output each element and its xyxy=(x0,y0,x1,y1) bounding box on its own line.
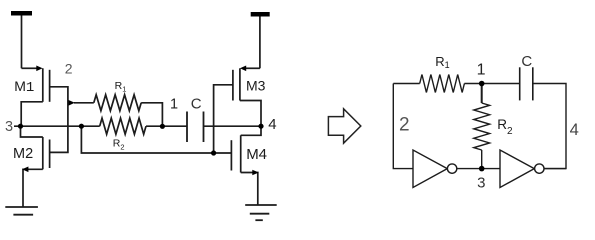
svg-text:4: 4 xyxy=(268,116,276,133)
svg-text:C: C xyxy=(521,53,532,70)
svg-text:3: 3 xyxy=(477,175,485,192)
svg-text:M1: M1 xyxy=(14,78,34,96)
svg-text:C: C xyxy=(191,95,202,112)
svg-text:R2: R2 xyxy=(113,138,125,152)
svg-text:3: 3 xyxy=(5,119,13,135)
svg-text:2: 2 xyxy=(65,60,73,76)
svg-text:R1: R1 xyxy=(115,80,127,93)
svg-text:R2: R2 xyxy=(497,117,513,137)
svg-text:M3: M3 xyxy=(246,78,266,94)
svg-text:M2: M2 xyxy=(13,146,33,162)
svg-text:M4: M4 xyxy=(246,146,267,163)
svg-text:R1: R1 xyxy=(435,54,449,70)
svg-text:1: 1 xyxy=(477,62,486,79)
svg-text:2: 2 xyxy=(399,114,410,135)
svg-text:1: 1 xyxy=(170,96,178,112)
svg-text:4: 4 xyxy=(570,121,579,139)
